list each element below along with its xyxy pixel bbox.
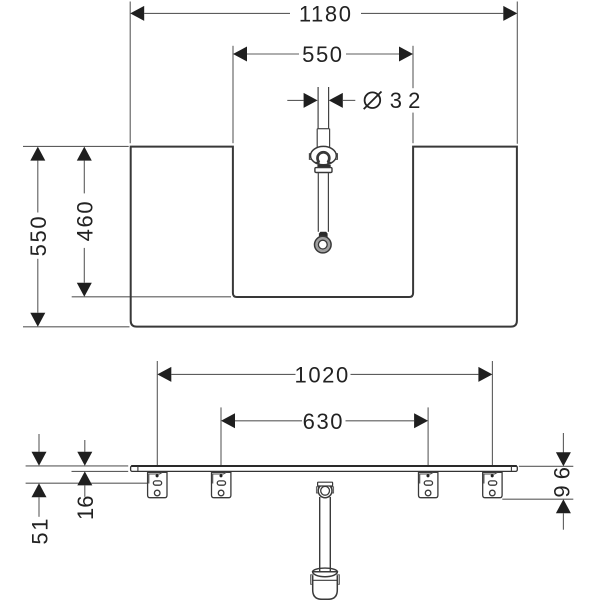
plate end tick left [137,466,139,471]
trap cup side tab left [311,575,313,585]
right dim 96 extension line bottom [502,498,573,500]
dim 1020 arrow left [157,367,171,382]
dim 630 arrow right [414,413,428,428]
drain fitting side tab right [335,154,338,160]
left dim 51 arrow down [32,452,47,466]
dim 550 top extension line right [412,46,414,88]
bracket 3 [419,472,438,497]
left dim 16 arrow up [77,471,92,485]
left dim 460 extension line bottom [72,296,231,298]
left dim 550 extension line bottom [23,326,130,328]
dim 1180 arrow right [503,6,517,21]
drain fitting flange [315,168,332,173]
trap top cap [318,482,333,486]
bracket 4 [483,472,502,497]
dim 1180 arrow left [130,6,144,21]
drain fitting side tab left [309,154,312,160]
dim 630 line [235,420,302,422]
drain tail pipe [317,173,319,232]
drain end connector [319,232,328,238]
svg-text:550: 550 [26,215,51,257]
trap cup side tab right [337,575,339,585]
dim 1020 extension line right [491,361,493,465]
drain fitting dark band [317,165,330,168]
drain pipe joint line [317,128,329,130]
svg-text:550: 550 [302,42,344,67]
svg-text:460: 460 [72,200,97,242]
dim diameter 32 arrow left [304,93,318,108]
dim 550 top arrow right [399,47,413,62]
trap cup [313,576,338,600]
drain end ring [315,236,332,253]
left dim 51 extension line at slot level [26,482,148,484]
drain pipe sleeve [316,129,318,147]
svg-text:3 2: 3 2 [390,88,421,113]
left dim 460 arrow up [77,147,92,161]
console outline top view [131,147,517,327]
left dim 51 line [38,434,40,452]
left dim 460 arrow down [77,283,92,297]
dim 1180 line [144,12,290,14]
left dim 16 extension line (plate bottom) [72,470,129,472]
svg-text:630: 630 [303,409,345,434]
dim 550 top extension line left [232,46,234,143]
trap collar back rim [313,568,338,575]
svg-text:9 6: 9 6 [550,467,575,498]
trap collar front rim [313,572,338,577]
dim 1180 extension line right [516,2,518,144]
bracket 2 [212,472,231,497]
dim 1020 arrow right [478,367,492,382]
dim 1020 extension line left [156,361,158,465]
left dim 16 arrow down [77,452,92,466]
dim 550 top line [247,53,299,55]
dim 1180 extension line left [129,2,131,144]
right dim 96 arrow down [556,452,571,466]
svg-text:1020: 1020 [295,362,350,387]
left dim 550 arrow down [30,313,45,327]
svg-text:16: 16 [73,496,98,520]
trap pipe front view [319,497,321,574]
left dim 51 arrow up [32,483,47,497]
dim 630 extension line left [220,407,222,465]
left dim 550 line [37,161,39,213]
left dim top extension line (plate top) [26,465,129,467]
drain pipe upper section top view [317,87,319,129]
trap top ring [318,484,332,498]
svg-text:51: 51 [27,517,52,545]
dim 630 extension line right [427,407,429,465]
bracket 1 [148,472,167,497]
console plate front view [131,466,518,471]
dim 550 top arrow left [233,47,247,62]
left dim 460 line [83,161,85,194]
drain fitting omega ring [318,152,330,162]
svg-text:1180: 1180 [299,1,353,26]
trap top ring side tab right [332,487,334,493]
right dim 96 line [562,433,564,453]
drain fitting body ellipse [311,146,337,164]
trap top ring side tab left [316,487,318,493]
dim diameter 32 label diameter symbol [365,92,381,108]
dim diameter 32 arrow right [329,93,343,108]
dim diameter 32 line left [287,99,303,101]
left dim 550 arrow up [30,147,45,161]
left dim 16 line [84,440,86,452]
dim 630 arrow left [221,413,235,428]
dim diameter 32 line right [343,99,356,101]
right dim 96 arrow up [556,499,571,513]
left dim 550 extension line top [23,145,129,147]
dim 1020 line [171,373,295,375]
plate end tick right [510,466,512,471]
right dim 96 extension line top [519,465,573,467]
